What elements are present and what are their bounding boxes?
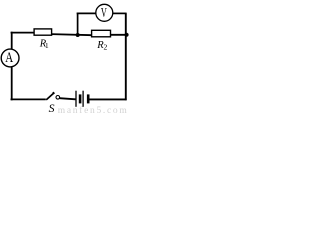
voltmeter V1 circle bbox=[96, 4, 113, 21]
svg-text:V: V bbox=[101, 6, 107, 21]
wire between R1 and R2 bbox=[51, 34, 92, 35]
wire voltmeter left horizontal bbox=[77, 12, 96, 14]
svg-text:S: S bbox=[49, 101, 55, 114]
junction dot right bbox=[125, 33, 129, 37]
battery long plate 2 bbox=[82, 91, 84, 107]
wire top-right horizontal bbox=[113, 12, 127, 14]
resistor R2 box bbox=[92, 30, 111, 37]
resistor R1 box bbox=[34, 29, 52, 35]
wire left vertical lower bbox=[11, 67, 13, 100]
svg-text:manfen5.com: manfen5.com bbox=[58, 105, 129, 114]
junction dot left bbox=[76, 33, 80, 37]
wire right vertical bbox=[125, 13, 127, 100]
wire top-left horizontal bbox=[11, 32, 35, 34]
battery short plate 2 bbox=[87, 94, 90, 103]
switch S contact circle bbox=[56, 96, 60, 100]
svg-text:1: 1 bbox=[45, 41, 49, 50]
svg-text:2: 2 bbox=[104, 43, 108, 52]
wire switch to battery bbox=[60, 98, 76, 99]
switch S blade bbox=[46, 93, 53, 100]
svg-text:A: A bbox=[5, 50, 13, 66]
wire left vertical upper bbox=[11, 32, 13, 50]
ammeter A1 circle bbox=[1, 49, 19, 67]
battery short plate 1 bbox=[79, 94, 82, 103]
switch S blade tip bbox=[53, 92, 54, 93]
wire R2 to right junction bbox=[110, 34, 127, 36]
wire battery to bottom-right bbox=[89, 98, 126, 100]
battery long plate 1 bbox=[75, 91, 77, 107]
wire left branch vertical bbox=[77, 13, 79, 35]
wire bottom-left bbox=[11, 98, 46, 100]
